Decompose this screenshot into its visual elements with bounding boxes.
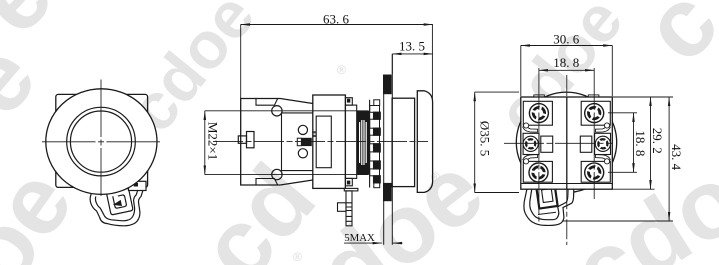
center lines (front view)	[42, 80, 162, 197]
screw 4 (mid-right common)	[592, 133, 613, 154]
adapter collar	[345, 105, 356, 178]
clip bottom-left	[523, 155, 538, 164]
threaded bushing M22 (solid)	[357, 111, 370, 175]
svg-text:13. 5: 13. 5	[399, 39, 425, 54]
block divider	[566, 97, 568, 189]
release latch (back view)	[524, 182, 574, 225]
adapter body	[313, 95, 346, 188]
button face inner ring	[70, 111, 131, 172]
top edge bumps	[534, 95, 545, 97]
head skirt	[392, 98, 415, 186]
plunger contacts	[298, 125, 307, 134]
dim 30.6	[521, 45, 613, 47]
adapter inner window	[316, 116, 331, 168]
terminal block body	[521, 97, 613, 189]
svg-text:e: e	[0, 0, 73, 54]
dim 43.4	[668, 97, 670, 221]
svg-text:M22×1: M22×1	[206, 122, 221, 160]
latch inner contour	[95, 190, 137, 220]
svg-text:18. 8: 18. 8	[553, 55, 579, 70]
screw 2 (top-right)	[581, 100, 607, 126]
svg-text:18. 8: 18. 8	[633, 130, 648, 156]
retaining clips	[523, 123, 611, 164]
contact block body	[241, 99, 313, 186]
release latch (front view) outer contour	[90, 179, 146, 226]
dim 13.5	[392, 53, 433, 55]
contact block top slot	[256, 99, 278, 106]
screw 1 (top-left)	[527, 101, 551, 125]
dim dia 35.5	[474, 92, 476, 192]
side latch plug	[247, 132, 255, 148]
mushroom head cap	[417, 91, 432, 193]
collar top tab	[345, 98, 352, 105]
latch anchor tab	[129, 181, 147, 190]
svg-text:43. 4: 43. 4	[669, 144, 684, 171]
latch spiral emboss	[106, 188, 133, 215]
dimension texts	[206, 12, 684, 244]
contact block bottom slot	[256, 179, 278, 186]
screw 5 (bottom-left)	[528, 162, 549, 183]
screw recess squares	[523, 101, 610, 182]
contact block screws (side)	[272, 106, 282, 116]
svg-text:63. 6: 63. 6	[323, 12, 350, 27]
terminal screws	[520, 100, 614, 185]
button face outer ring	[67, 107, 136, 176]
bezel circle (front view)	[46, 89, 157, 195]
svg-text:®: ®	[337, 63, 346, 77]
mounting square plate	[56, 94, 148, 187]
anti-rotation toothed washer	[369, 100, 371, 188]
dim 18.8 top	[539, 69, 594, 71]
collar bottom tab	[345, 178, 352, 185]
dim 18.8 right	[633, 113, 635, 173]
dim 63.6	[241, 24, 433, 26]
svg-text:30. 6: 30. 6	[553, 31, 580, 46]
svg-text:®: ®	[293, 250, 302, 264]
dim 29.2	[650, 97, 652, 189]
screw 6 (bottom-right)	[582, 160, 607, 185]
clip bottom-right	[596, 155, 611, 164]
svg-text:Ø35. 5: Ø35. 5	[478, 121, 493, 156]
back view centerlines	[504, 68, 613, 245]
round body circle	[516, 92, 616, 192]
clip top-right	[596, 123, 611, 132]
dim M22x1	[204, 111, 206, 175]
wire entry holes	[541, 136, 553, 152]
svg-text:29. 2: 29. 2	[650, 128, 665, 154]
dimension layer	[205, 25, 673, 246]
clip top-left	[523, 123, 538, 132]
dim 5MAX	[344, 242, 382, 244]
svg-text:c: c	[621, 0, 719, 82]
screw 3 (mid-left common)	[520, 133, 541, 154]
side view centerline	[213, 141, 428, 143]
contact block inner window	[282, 113, 313, 171]
svg-text:5MAX: 5MAX	[344, 232, 375, 244]
svg-text:doe: doe	[298, 134, 503, 265]
adapter bottom pin assembly	[338, 188, 358, 225]
panel cut (section)	[383, 75, 385, 245]
